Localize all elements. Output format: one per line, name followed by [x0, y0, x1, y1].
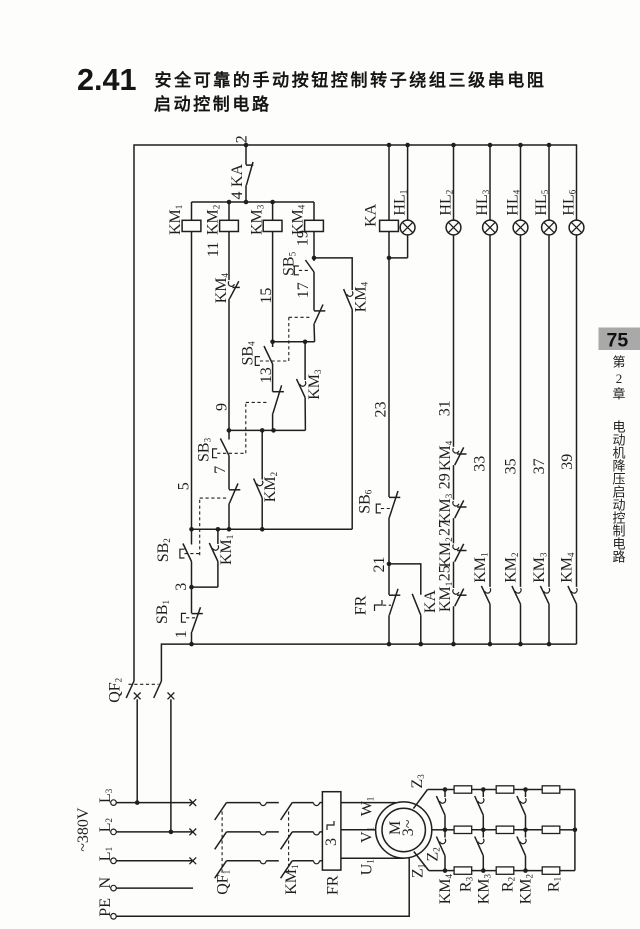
svg-text:KM1: KM1	[437, 582, 454, 612]
contactor contact KM2 (NO) self-holding	[261, 430, 263, 479]
svg-text:33: 33	[472, 456, 489, 472]
svg-text:FR: FR	[353, 595, 370, 615]
page number tab 75	[599, 328, 640, 351]
svg-text:27: 27	[437, 520, 454, 536]
contactor coil KM2	[228, 202, 230, 220]
svg-text:2: 2	[616, 371, 623, 386]
wire FR to motor U1	[341, 857, 404, 859]
resistor R3 phase c	[454, 867, 472, 874]
svg-text:13: 13	[258, 367, 275, 383]
svg-text:KM1: KM1	[472, 553, 489, 583]
wire node 3 bus	[191, 562, 193, 588]
pushbutton SB6 (NC)	[389, 496, 400, 498]
node 27	[453, 518, 455, 543]
contactor contact KM2 (NC) in HL2 branch	[453, 545, 459, 550]
svg-text:2: 2	[234, 135, 251, 143]
wire node 5 bus	[192, 528, 353, 530]
svg-text:23: 23	[372, 402, 389, 418]
node 1	[191, 632, 193, 644]
svg-text:1: 1	[173, 630, 190, 638]
mechanical link SB2 to NC contact	[199, 498, 201, 555]
signal lamp HL2	[453, 145, 455, 220]
linked contact of SB4 (NC) in KM4 branch	[314, 310, 325, 312]
wire node 35	[520, 235, 522, 587]
node 29	[453, 465, 455, 500]
wire node 23	[388, 258, 390, 497]
contactor contact KM2 rotor short lower	[525, 830, 527, 838]
node 13	[272, 364, 274, 392]
title number 2.41	[77, 70, 137, 96]
contactor main contact KM1 pole L3	[281, 803, 293, 820]
svg-text:第: 第	[612, 355, 625, 370]
contactor coil KM1	[191, 202, 193, 220]
svg-text:KM2: KM2	[262, 472, 279, 502]
circuit breaker QF1 pole L2	[215, 832, 227, 849]
node 25	[453, 562, 455, 588]
contactor contact KM2 rotor short upper	[523, 787, 528, 792]
wire KM1 coil to node 5	[191, 232, 193, 530]
supply terminal L3	[111, 800, 117, 806]
svg-text:KA: KA	[363, 203, 380, 227]
mechanical link SB4 to NC contact	[288, 317, 290, 361]
svg-text:PE: PE	[97, 898, 114, 917]
wire node 9	[228, 299, 230, 431]
svg-text:3: 3	[323, 838, 340, 846]
svg-text:3: 3	[173, 583, 190, 591]
contactor contact KM4 rotor short upper	[443, 787, 448, 792]
svg-text:7: 7	[212, 466, 229, 474]
relay coil KA	[388, 145, 390, 220]
svg-text:39: 39	[559, 454, 576, 470]
contactor contact KM2 (NO) in HL4 branch	[515, 588, 521, 593]
svg-text:KM1: KM1	[218, 535, 235, 565]
supply terminal PE	[111, 914, 117, 920]
contactor main contact KM1 pole L1	[281, 861, 293, 878]
resistor R2 phase a	[496, 786, 514, 793]
wire FR to motor V1	[341, 829, 376, 831]
wire stage bus at y342	[273, 341, 315, 343]
resistor R1 phase b	[542, 826, 560, 833]
pushbutton SB5 (NO)	[313, 258, 315, 261]
supply terminal L1	[111, 858, 117, 864]
node 19 junction	[312, 256, 317, 261]
contactor contact KM4 (NO) self-holding	[347, 291, 353, 296]
resistor R1 phase a	[542, 786, 560, 793]
svg-text:KM1: KM1	[167, 205, 184, 235]
node 11	[228, 232, 230, 281]
resistor R2 phase c	[496, 867, 514, 874]
relay contact KA (NC) between nodes 2 and 4	[246, 164, 253, 166]
wire QF1 to KM1	[266, 802, 279, 804]
contactor contact KM1 (NO) self-holding	[217, 529, 219, 544]
node 21	[388, 518, 390, 564]
contactor contact KM3 rotor short upper	[481, 787, 486, 792]
contactor contact KM1 (NO) in HL3 branch	[485, 588, 491, 593]
svg-text:15: 15	[258, 288, 275, 304]
svg-text:3~: 3~	[400, 819, 417, 836]
supply terminal L2	[111, 829, 117, 835]
mechanical link KM1	[288, 812, 290, 875]
svg-text:FR: FR	[325, 875, 342, 895]
svg-text:KM2: KM2	[437, 537, 454, 567]
svg-text:路: 路	[612, 550, 625, 565]
contactor contact KM1 (NC) in HL2 branch	[453, 589, 459, 594]
node 17	[313, 272, 315, 311]
contactor contact KM3 rotor short lower	[482, 830, 484, 838]
contactor coil KM3	[272, 202, 274, 220]
contactor contact KM3 (NC) in HL2 branch	[453, 501, 459, 506]
resistor R3 phase b	[454, 826, 472, 833]
svg-text:31: 31	[437, 400, 454, 416]
resistor R3 phase a	[454, 786, 472, 793]
circuit breaker QF2 pole 1	[126, 681, 134, 698]
wire node21 to KA contact branch	[389, 564, 421, 595]
contactor coil KM4	[313, 202, 315, 220]
wire top rail node 2 bus	[134, 145, 577, 681]
svg-text:KM2: KM2	[503, 553, 520, 583]
rotor terminal Z3	[413, 790, 427, 809]
svg-text:5: 5	[176, 482, 193, 490]
wire rotor star point	[574, 790, 576, 871]
wire FR to motor W1	[341, 802, 396, 804]
pushbutton SB3 (NO)	[228, 430, 230, 439]
signal lamp HL1	[407, 145, 409, 220]
mechanical link QF2	[129, 683, 159, 685]
title line 2	[154, 96, 272, 113]
mechanical link SB3 to NC contact	[245, 402, 247, 453]
svg-text:35: 35	[503, 458, 520, 474]
wire rotor phase rows	[445, 789, 454, 791]
wire PE to motor frame	[116, 857, 409, 916]
svg-text:25: 25	[437, 565, 454, 581]
wire bottom rail node 1 bus	[161, 644, 576, 681]
pushbutton SB2 (NO) start	[191, 529, 193, 544]
motor M 3~	[376, 802, 432, 858]
svg-text:75: 75	[607, 330, 629, 352]
thermal overload relay FR heater box	[322, 792, 341, 870]
svg-text:KM1: KM1	[283, 865, 300, 895]
circuit breaker QF1 pole L1	[215, 861, 227, 878]
pushbutton SB4 (NO)	[272, 342, 274, 347]
contactor contact KM4 (NC) in HL2 branch	[453, 448, 459, 453]
rotor terminal Z2	[432, 829, 445, 831]
contactor main contact KM1 pole L2	[281, 832, 293, 849]
wire node 19	[313, 232, 315, 258]
wire node 37	[548, 235, 550, 587]
svg-text:29: 29	[437, 473, 454, 489]
contactor contact KM4 (NO) in HL6 branch	[571, 588, 577, 593]
thermal relay contact FR (NC)	[388, 564, 390, 595]
mechanical link QF1	[221, 812, 223, 875]
linked contact of SB3 (NC) in KM3 branch	[273, 391, 284, 393]
svg-text:KM2: KM2	[205, 205, 222, 235]
svg-text:9: 9	[214, 403, 231, 411]
svg-text:N: N	[97, 877, 114, 889]
linked contact of SB2 (NC) in KM2 branch	[229, 489, 240, 491]
signal lamp HL6	[569, 220, 584, 235]
wire node 9 bus	[229, 429, 306, 431]
contactor contact KM3 (NO) self-holding	[304, 342, 306, 380]
circuit breaker QF2 pole 2	[154, 681, 162, 698]
signal lamp HL3	[489, 145, 491, 220]
relay contact KA (NO)	[412, 594, 421, 615]
title line 1	[155, 72, 547, 89]
svg-text:~380V: ~380V	[75, 807, 92, 852]
wire node19 to KM4 holding branch	[314, 258, 352, 290]
rotor terminal Z1	[414, 852, 429, 871]
resistor R1 phase c	[542, 867, 560, 874]
contactor contact KM4 (NC) in KM2 branch	[228, 281, 234, 286]
node 7	[228, 456, 230, 490]
contactor contact KM3 (NO) in HL5 branch	[544, 588, 550, 593]
svg-text:11: 11	[205, 242, 222, 257]
supply terminal N	[111, 885, 117, 891]
svg-text:17: 17	[295, 282, 312, 298]
signal lamp HL4	[520, 145, 522, 220]
svg-text:KM2: KM2	[518, 874, 535, 904]
signal lamp HL5	[548, 145, 550, 220]
svg-text:4: 4	[229, 192, 246, 200]
svg-text:KA: KA	[229, 163, 246, 187]
svg-text:19: 19	[295, 230, 312, 246]
svg-text:21: 21	[371, 557, 388, 573]
wire coil bus node 4	[192, 201, 315, 203]
wire node 15	[272, 232, 274, 342]
wire node 33	[489, 235, 491, 587]
svg-text:37: 37	[531, 458, 548, 474]
resistor R2 phase b	[496, 826, 514, 833]
wire KA-HL1 junction	[388, 232, 390, 258]
wire node 31	[453, 235, 455, 447]
pushbutton SB1 (NC) stop	[191, 587, 193, 613]
svg-text:章: 章	[612, 387, 625, 402]
wire node 39	[576, 235, 578, 587]
contactor contact KM4 rotor short lower	[444, 830, 446, 838]
circuit breaker QF1 pole L3	[215, 803, 227, 820]
